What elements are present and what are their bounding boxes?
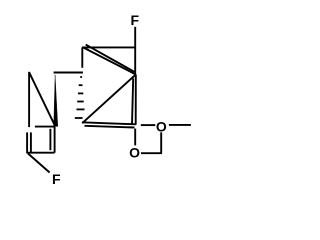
bond O-CH3 [169, 124, 191, 126]
bond A vertical [81, 47, 83, 67]
bond A-B horizontal [82, 46, 135, 48]
bond A=C second [86, 45, 135, 72]
bond C=E inner [132, 78, 133, 124]
wedge bond P2-P3 [54, 75, 58, 127]
bond O-CH2 vertical [160, 132, 162, 153]
bond CH2-O bottom horizontal [141, 152, 162, 154]
bond D=E main [82, 122, 136, 124]
svg-text:F: F [131, 12, 140, 28]
node P1-P3 diagonal [29, 72, 55, 126]
bond D=E second [85, 126, 135, 128]
bond A=C main [82, 47, 136, 75]
node P1 apex left vertical [28, 72, 30, 127]
bond F top vertical + B-C [134, 27, 136, 75]
node square right main [54, 127, 56, 153]
svg-text:F: F [52, 171, 61, 187]
node square top edge [35, 126, 55, 128]
hashed wedge X-D [75, 77, 85, 118]
node square bottom edge [27, 152, 55, 154]
node square left double b [30, 132, 32, 152]
node square left double a [26, 132, 28, 153]
svg-text:O: O [156, 118, 167, 134]
bond E-O right [141, 124, 156, 126]
wire [0, 0, 214, 199]
bond C-D diagonal [82, 75, 136, 124]
bond E-O bottom vertical [134, 129, 136, 146]
svg-text:O: O [129, 145, 140, 161]
node P2-X horizontal bond [54, 72, 83, 74]
bond C=E main [135, 75, 137, 125]
bond to F bottom [28, 154, 50, 173]
node square right inner [49, 129, 51, 150]
